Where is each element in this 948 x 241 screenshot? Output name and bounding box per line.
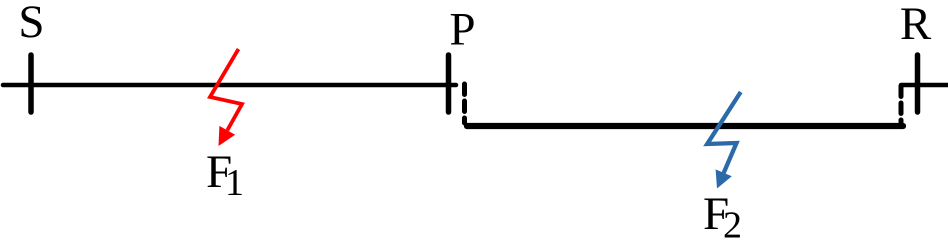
dashed connector at P bbox=[462, 84, 467, 123]
bus P bar bbox=[446, 55, 452, 112]
svg-text:R: R bbox=[900, 0, 932, 50]
fault F1 lightning bolt (red) bbox=[210, 49, 242, 146]
wire: line at R bbox=[901, 83, 948, 88]
svg-text:2: 2 bbox=[723, 205, 742, 241]
fault F2 lightning bolt (blue) bbox=[707, 92, 741, 189]
svg-text:1: 1 bbox=[225, 162, 244, 204]
svg-text:S: S bbox=[18, 0, 44, 48]
bus R bar bbox=[915, 55, 921, 112]
wire: line S to P bbox=[3, 83, 456, 88]
dashed connector at R bbox=[899, 86, 904, 123]
wire: line P to R (thick) bbox=[467, 123, 903, 129]
bus S bar bbox=[28, 55, 34, 112]
svg-text:P: P bbox=[449, 4, 475, 56]
